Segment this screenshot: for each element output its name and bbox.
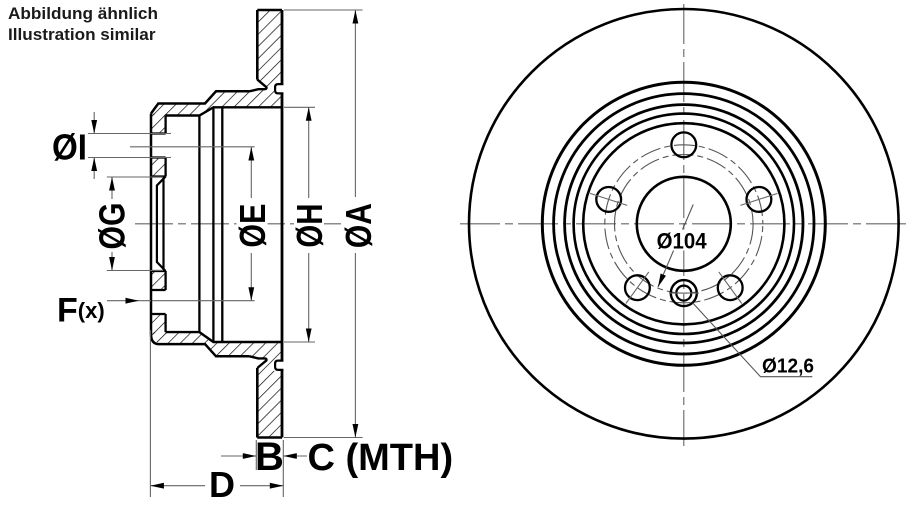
flange inner face segments [164, 116, 166, 333]
hatched section: flange block D [151, 314, 166, 334]
horizontal centerline [460, 223, 907, 225]
friction ring outline [257, 10, 282, 438]
svg-text:B: B [255, 435, 284, 479]
relief groove bottom left (V undercut) [250, 358, 267, 369]
bore edge line 2 [212, 107, 214, 342]
hub bore circle [637, 177, 731, 271]
pin circle Ø104 (dashed) [615, 155, 754, 294]
relief groove top right face [274, 83, 284, 95]
hatched section: hat top band [151, 91, 257, 115]
svg-text:ØH: ØH [289, 204, 330, 248]
friction ring circle 4 [574, 114, 794, 334]
svg-text:Illustration similar: Illustration similar [8, 25, 156, 44]
friction ring circle 3 [565, 105, 803, 343]
label ØG [97, 199, 127, 252]
bolt circle (dashed) [605, 145, 763, 303]
B extension lines [256, 440, 283, 497]
ØH dimension line [308, 107, 310, 342]
relief groove top left (V undercut) [250, 79, 267, 90]
ØG extension lines [107, 177, 163, 271]
ØA dimension line [354, 10, 356, 438]
ØI extension lines [88, 134, 171, 158]
svg-text:Ø104: Ø104 [657, 228, 708, 253]
locating pin hole Ø12,6 [671, 280, 697, 306]
hatched section: flange block B [151, 158, 166, 177]
label ØA [341, 200, 373, 251]
F(x) leader [107, 300, 151, 302]
bolt hole lower left [625, 275, 650, 300]
svg-text:Ø12,6: Ø12,6 [762, 354, 814, 377]
hatched section: friction ring bottom [257, 342, 282, 438]
B dimension arrows [221, 455, 307, 457]
friction ring circle 2 [554, 94, 814, 354]
hat inner surface top [166, 107, 282, 115]
svg-text:Abbildung ähnlich: Abbildung ähnlich [8, 4, 158, 23]
ØI dimension line [93, 112, 95, 179]
Ø12,6 leader line [693, 303, 813, 377]
thin lines: bolt hole centerline top / ØE extension [130, 146, 255, 148]
hat inner surface bottom [166, 332, 282, 342]
thin lines: ØE bottom extension [152, 300, 255, 302]
section axis centerline [135, 223, 373, 225]
vertical centerline [683, 4, 685, 446]
ØG dimension line [111, 177, 113, 271]
D extension line [149, 330, 151, 497]
label ØE [237, 200, 268, 251]
hat outline bottom: drum outer surface and fillet [151, 334, 250, 356]
bolt hole upper left [596, 187, 621, 212]
svg-text:ØI: ØI [52, 126, 87, 167]
outer circle (disc OD) [469, 9, 899, 439]
bolt hole top [671, 132, 696, 157]
D dimension line [150, 485, 283, 487]
hatched section: flange block A [151, 114, 166, 134]
bore edge line 1 [198, 116, 200, 333]
bolt hole upper right [747, 187, 772, 212]
friction ring circle 5 [583, 123, 784, 324]
svg-text:ØA: ØA [338, 203, 379, 248]
svg-text:D: D [209, 464, 235, 505]
svg-text:C (MTH): C (MTH) [308, 437, 454, 479]
svg-text:ØG: ØG [92, 203, 133, 250]
ØA extension lines [284, 10, 363, 438]
register ring edges [151, 177, 166, 272]
Ø104 leader line with arrow [658, 205, 693, 288]
bolt hole edges in flange [151, 134, 166, 315]
relief groove bottom right face [274, 360, 284, 372]
label Ø104 [654, 230, 710, 251]
svg-text:ØE: ØE [232, 204, 273, 248]
bore edge line 3 [221, 107, 223, 342]
ØE dimension line [250, 147, 252, 301]
hatched section: flange block C [151, 271, 166, 291]
hat outline top: mounting wall chamfer and drum outer surface [151, 91, 250, 113]
hatched section: hat bottom band [151, 332, 257, 356]
ØH extension lines [284, 107, 315, 342]
hat mounting face wall [150, 114, 153, 335]
hatched section: friction ring top [257, 10, 282, 107]
bolt hole lower right [718, 275, 743, 300]
friction ring circle 1 [542, 82, 825, 365]
label ØH [294, 200, 324, 251]
